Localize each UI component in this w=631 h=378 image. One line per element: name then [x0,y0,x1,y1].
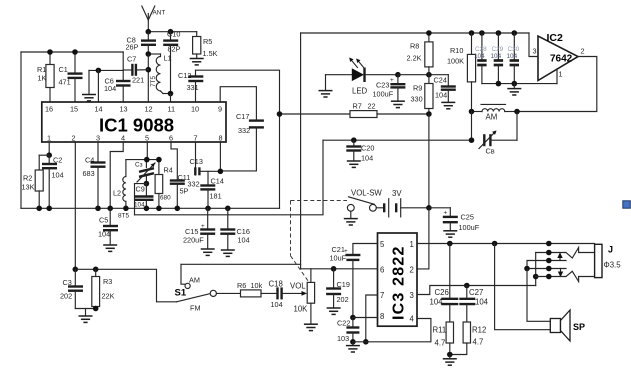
svg-text:7T5: 7T5 [150,76,157,87]
node: row4 column dot [546,266,552,272]
svg-text:AM: AM [486,113,498,122]
wire: pin7 lead [366,295,378,342]
resistor R4 680 [155,160,173,209]
svg-text:104: 104 [52,171,64,180]
svg-text:4.7: 4.7 [435,339,446,348]
capacitor C17 332 [236,112,264,135]
node: AM coil right [514,109,520,115]
svg-text:R5: R5 [203,37,212,46]
wire: pin4 route down [110,142,123,208]
svg-text:10uF: 10uF [330,254,347,263]
wire: FM contact to R6 [216,292,240,294]
ground: under VOL [304,324,318,330]
svg-text:R3: R3 [103,277,112,286]
jack J body [595,244,622,277]
wire: C17 bottom to pin8 node [220,127,256,170]
ground: LED anode [319,75,333,97]
wire: IC2 pin2 output loop [517,57,597,112]
svg-text:C24: C24 [434,76,447,85]
svg-text:C4: C4 [85,156,94,165]
ground: under C15 [201,249,215,255]
battery 3V [376,189,429,217]
svg-text:1.5K: 1.5K [203,49,218,58]
VOL-SW lever [349,197,375,205]
svg-text:6: 6 [380,265,384,274]
svg-text:C29: C29 [492,46,504,53]
wire: pin11 stub [170,94,172,103]
svg-text:7: 7 [380,291,384,300]
wire: jack row2 (upper NC) [536,252,566,254]
ground: under C24 [441,102,455,108]
capacitor C1 471 [59,52,83,102]
svg-text:AM: AM [189,275,200,284]
wire: line A (top rail to audio node) [301,33,378,269]
node: pin1/speaker return [492,241,498,247]
svg-text:C26: C26 [435,288,449,297]
wire: Cb right riser [516,112,518,141]
node: rail junction R4 [156,206,162,212]
capacitor C28 104 [474,33,487,84]
dashed: VOL-SW gang link [291,201,348,282]
capacitor C16 104 [220,208,250,249]
antenna ANT [142,6,166,32]
wire: pin5 lead [353,244,378,255]
ground: R11/R12 [443,355,457,366]
capacitor C25 100uF [443,208,480,232]
svg-text:R11: R11 [433,326,447,335]
svg-text:5P: 5P [180,187,189,196]
wire: pin14 node horizontal [89,69,123,71]
svg-text:Φ3.5: Φ3.5 [604,261,622,270]
node: rail junction C14/C15 [205,206,211,212]
resistor R11 4.7 [433,322,454,355]
node: pin1/C26 [447,241,453,247]
node: pin7/ground-wire junction [363,339,369,345]
resistor R8 2.2K [407,33,434,75]
svg-text:+: + [444,210,448,217]
svg-text:C9: C9 [136,185,145,194]
svg-text:16: 16 [45,105,53,114]
capacitor C30 104 [507,33,520,84]
svg-text:C20: C20 [361,144,374,153]
svg-text:C5: C5 [99,216,108,225]
svg-text:12: 12 [145,105,153,114]
svg-text:10k: 10k [251,281,263,290]
svg-text:7: 7 [194,134,198,143]
wire: left edge drop [20,52,22,208]
svg-text:332: 332 [188,180,200,189]
ground: C22/pin4 [346,342,360,352]
resistor R3 22K [92,269,115,308]
jack upper contact spring [566,248,595,259]
wire: mid node to tuning rail [135,184,147,215]
node: rail junction C2 [46,206,52,212]
svg-text:+: + [390,77,394,84]
svg-text:2: 2 [72,134,76,143]
node: rail/R8 [426,30,432,36]
IC U3: IC3 2822 [378,233,418,326]
wire: pin2 node to S1 [75,269,176,302]
svg-text:104: 104 [430,298,444,307]
IC U1: IC1 9088 [42,102,226,143]
wire: pin5 stub [146,142,148,160]
svg-text:26P: 26P [126,43,139,52]
switch VOL-SW [347,189,382,212]
wire: C3/R3 common [75,308,95,310]
resistor R1 1K [37,52,54,102]
node: C21/pin8 junction [350,315,356,321]
svg-text:8: 8 [219,134,223,143]
resistor R7 22 [350,102,429,118]
inductor L2 8T5 [113,160,129,220]
svg-text:C22: C22 [337,319,350,328]
svg-text:104: 104 [361,154,373,163]
arrow: plug ring actuation down [558,269,563,278]
svg-text:C10: C10 [167,30,180,39]
resistor R5 1.5K [193,32,218,58]
node: tank mid node [144,181,150,187]
capacitor C19 202 [326,269,350,308]
svg-text:100K: 100K [447,57,464,66]
svg-text:R7: R7 [353,102,362,111]
potentiometer VOL 10K [290,269,315,324]
node: pin8/C13/C17 junction [218,169,224,175]
node: C1 top [72,49,78,55]
variable capacitor C3' (tank trimmer) [135,160,155,184]
svg-text:C13: C13 [190,157,203,166]
svg-text:R4: R4 [164,166,173,175]
svg-text:104: 104 [134,202,145,209]
svg-text:C25: C25 [461,213,474,222]
svg-text:104: 104 [435,91,447,100]
svg-text:330: 330 [411,95,423,104]
svg-text:C7: C7 [127,55,136,64]
S1 FM contact [210,290,216,296]
capacitor C15 220uF [183,208,215,248]
ground: decoupling rail [507,84,521,95]
svg-text:14: 14 [95,105,103,114]
node: pin12/C7 junction [146,67,152,73]
capacitor C20 104 [346,140,374,162]
wire: jack row4 [527,268,566,270]
wire: speaker return feed [495,244,551,330]
svg-text:C28: C28 [475,46,487,53]
node: pin14 junction [96,68,102,74]
node: row5 column dot [546,274,552,280]
svg-text:104: 104 [474,53,485,60]
node: row4 left dot [524,266,530,272]
node: rail junction C9 [144,206,150,212]
wire: AM left vertical to tuning line [471,112,473,141]
svg-text:181: 181 [210,192,222,201]
svg-text:100uF: 100uF [459,223,480,232]
wire: pin1 node to R2 [39,154,49,156]
svg-text:331: 331 [187,83,199,92]
speaker SP [550,310,585,341]
svg-text:C3: C3 [63,278,72,287]
wire: LED node to C24 [398,74,448,76]
svg-text:C17: C17 [236,112,249,121]
svg-text:3: 3 [410,291,414,300]
capacitor C4 683 (pin3) [83,142,106,208]
node: AM coil left [469,109,475,115]
resistor R2 13K [22,155,44,208]
capacitor C24 104 [434,75,456,102]
wire: pin9 riser to C17 [220,87,256,121]
VOL-SW left contact [347,204,354,211]
svg-text:IC3 2822: IC3 2822 [391,245,408,320]
node: R3 bottom junction [93,306,99,312]
resistor R9 330 [411,75,434,114]
svg-text:683: 683 [83,169,95,178]
jack lower contact spring [566,271,595,281]
node: R1 top [47,49,53,55]
svg-text:3: 3 [96,134,100,143]
svg-text:3V: 3V [392,189,402,198]
svg-text:15: 15 [70,105,78,114]
ground: under C19 [327,308,341,314]
wire: pin14 stub [97,70,99,102]
wire: IC3 pin3 output [417,286,536,295]
svg-text:4.7: 4.7 [473,338,484,347]
svg-text:L2: L2 [113,189,121,198]
ground: pin14 node [82,70,96,101]
svg-text:C23: C23 [376,81,389,90]
svg-text:+: + [201,223,205,230]
svg-text:C2: C2 [53,156,62,165]
node: rail junction C11 [175,206,181,212]
node: rail/C28 [479,30,485,36]
capacitor C26 104 [430,244,459,323]
wire: rail to IC2 pin3 [529,33,538,57]
S1 lever [177,294,210,302]
svg-text:SP: SP [573,322,585,332]
svg-text:C19: C19 [337,280,350,289]
svg-text:332: 332 [238,126,250,135]
inductor AM ferrite antenna [472,104,518,121]
wire: jack row3 (speaker feed upper) [527,261,566,269]
node: pin3/C27 [464,283,470,289]
svg-text:471: 471 [59,78,71,87]
svg-text:104: 104 [475,298,489,307]
svg-text:22: 22 [368,102,376,111]
svg-text:220uF: 220uF [183,236,204,245]
svg-text:R6: R6 [237,281,246,290]
node: R9/R7 supply junction [426,111,432,117]
node: C12-line/R7 junction [277,111,283,117]
node: Cb left [469,137,475,143]
wire: FM tuning line [323,139,472,141]
svg-text:R10: R10 [450,46,463,55]
svg-text:1: 1 [559,70,563,79]
svg-text:11: 11 [168,105,176,114]
ground: under C23 [391,101,405,107]
capacitor C8 26P [126,32,157,54]
svg-text:C30: C30 [508,46,520,53]
wire: R7 feed [280,113,351,115]
svg-text:8T5: 8T5 [118,213,129,220]
svg-text:22K: 22K [102,292,115,301]
capacitor C14 181 [200,171,224,208]
svg-text:FM: FM [190,304,201,313]
capacitor C12 331 (pin10) [178,70,203,102]
svg-text:7642: 7642 [550,54,573,65]
svg-text:1K: 1K [38,74,47,83]
variable capacitor Cb (tuning gang) [479,131,517,156]
wire: pin4 route to ground [353,319,431,342]
svg-text:R2: R2 [23,174,32,183]
node: pin1 junction [46,152,52,158]
node: battery/pin2 junction [426,205,432,211]
ground: VOL-SW left [344,211,358,225]
node: C23 top junction [395,72,401,78]
capacitor C3 202 [60,269,83,308]
wire: speaker hot feed [527,269,550,322]
ground: C3/R3 [79,309,93,323]
node: tank top (pin5) [144,157,150,163]
svg-text:S1: S1 [175,288,187,299]
LED D1 [326,58,398,96]
node: decoupling rail j1 [496,81,502,87]
ground: under C20 [347,161,361,167]
capacitor C21 10uF [330,245,361,318]
wire: jack row5 (lower NC) [536,276,566,278]
ground: under R5 [190,59,204,65]
switch S1 AM/FM [175,264,217,312]
svg-text:Cз: Cз [135,162,143,169]
node: rail junction C16 [225,206,231,212]
wire: pin6 route [171,142,177,180]
svg-text:6: 6 [169,134,173,143]
LED arrow 2 [357,60,365,69]
capacitor C27 104 [459,286,488,323]
node: rail/C29 [496,30,502,36]
wire: IC2 pin1 drop [556,69,558,84]
node: C22 bottom junction [350,339,356,345]
svg-text:L1: L1 [164,54,172,63]
svg-text:9: 9 [218,105,222,114]
node: rail junction L2 [123,206,129,212]
svg-text:82P: 82P [168,45,181,54]
node: R3 top junction [93,267,99,273]
svg-text:104: 104 [238,236,250,245]
svg-text:VOL: VOL [290,282,306,291]
svg-text:13K: 13K [22,183,35,192]
arrow: plug tip actuation up [557,252,562,260]
capacitor C29 104 [491,33,504,84]
wire: pin2 long drop [74,142,76,269]
svg-text:104: 104 [98,230,110,239]
op-amp U2: IC2 7642 [533,32,585,81]
svg-text:202: 202 [60,292,72,301]
LED arrow 1 [350,59,358,68]
svg-text:13: 13 [120,105,128,114]
svg-text:J: J [608,245,613,255]
wire: pin8 stub [219,142,221,171]
node: antenna-C10 junction [168,29,174,35]
resistor R12 4.7 [450,322,487,355]
capacitor C2 104 [42,155,64,208]
svg-text:680: 680 [160,195,171,202]
resistor R10 100K [447,33,476,112]
svg-text:R12: R12 [472,326,486,335]
svg-text:5: 5 [145,134,149,143]
capacitor C23 100uF [373,75,406,101]
capacitor C5 104 [98,208,118,244]
svg-text:C12: C12 [178,71,191,80]
wire: row2/row5 riser [535,253,537,286]
node: row2 column dot [546,250,552,256]
svg-text:R8: R8 [410,42,419,51]
wire: AM contact riser [181,264,185,284]
svg-text:IC1 9088: IC1 9088 [99,115,174,136]
svg-text:104: 104 [507,53,518,60]
svg-text:IC2: IC2 [547,32,564,44]
wire: pin8 lead [353,317,378,319]
svg-text:C27: C27 [469,288,483,297]
svg-text:104: 104 [271,300,283,309]
resistor R6 10k [237,281,276,297]
node: C20 top junction [351,137,357,143]
wire: top-left rail [21,51,123,53]
svg-text:C1: C1 [59,65,68,74]
svg-text:1: 1 [410,240,414,249]
wire: AM select line [181,263,301,265]
wire: IC2 decoupling rail [482,83,557,85]
svg-text:4: 4 [121,134,125,143]
svg-text:8: 8 [380,312,384,321]
svg-text:2.2K: 2.2K [407,54,422,63]
node: C8/L1 junction [146,51,152,57]
wire: C12 top to mid column [196,70,280,208]
capacitor C7 221 [123,55,148,85]
svg-text:2: 2 [581,47,585,56]
node: row5 junction [533,274,539,280]
capacitor C9 104 [134,184,154,209]
wire: pin7 stub [195,142,197,175]
svg-text:4: 4 [410,315,415,324]
node: row3 column dot [546,258,552,264]
svg-text:100uF: 100uF [373,90,394,99]
svg-text:104: 104 [104,84,116,93]
svg-text:10: 10 [191,105,199,114]
wire: supply column to battery [428,114,430,208]
node: antenna-C8 junction [146,29,152,35]
wire: pin12 riser [147,54,149,102]
capacitor C6 104 (on pin13 line) [104,52,131,102]
node: rail/R10 [469,30,475,36]
ground: under C25 [443,231,457,237]
svg-text:10K: 10K [294,305,309,314]
node: R4 top [156,157,162,163]
svg-text:Cв: Cв [486,147,495,156]
blue marker square [623,201,631,208]
wiper arrow into VOL [302,291,308,296]
node: rail junction C4 [95,206,101,212]
ground: under C16 [221,250,235,256]
svg-text:LED: LED [352,87,368,96]
capacitor C22 103 [337,318,359,344]
node: rail/C30 [512,30,518,36]
wire: main bypass rail [21,207,280,209]
node: pin2/C3 junction [73,267,79,273]
wire: top supply rail [301,32,529,34]
VOL-SW right contact [370,204,377,211]
svg-text:VOL-SW: VOL-SW [351,189,382,198]
node: audio node C19/C21 [331,266,337,272]
capacitor C10 82P [163,30,180,94]
capacitor C18 104 [269,280,303,310]
